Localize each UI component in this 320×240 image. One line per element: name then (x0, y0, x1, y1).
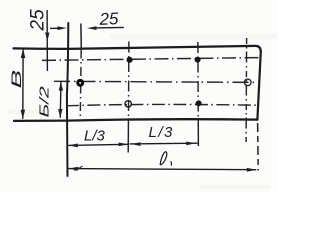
hole: open circle right-middle (247.7,82.3) (244, 79, 251, 86)
paper background (0, 0, 278, 192)
column centerline A (x=81) solid extension above plate (80, 24, 82, 50)
plate right edge (257, 52, 260, 120)
plate bottom edge with left extension (14, 119, 257, 121)
hole: filled dot top-right (197.6,59.6) (195, 57, 201, 63)
hole: open circle bottom-left (128.2,103.9) (125, 101, 131, 107)
dim B: vertical dimension line with two arrowheads (22, 49, 24, 119)
dim L: cursive label (160, 152, 167, 165)
middle centerline (y=82) (54, 81, 259, 82)
hole: thick ring left-middle (80.2,82.8) (78, 80, 83, 85)
plate top edge with left extension and rounded top-right corner (14, 46, 261, 52)
right edge dashed extension below plate (L dim) (257, 123, 260, 171)
bottom hole row centerline (y=105) (66, 104, 257, 105)
dim B/2: vertical dimension line with two arrowheads (59, 82, 62, 118)
column centerline A inside plate (dash-dot) (80, 50, 81, 121)
top hole row centerline (y=60) (42, 58, 259, 61)
dim 25 horizontal: right arrow pointing left, tip near col A ext (95, 26, 124, 29)
svg-text:Б/2: Б/2 (37, 86, 52, 118)
svg-text:В: В (8, 70, 24, 89)
svg-text:25: 25 (98, 9, 119, 29)
dim 25 vertical: dimension line with down arrowhead (46, 10, 48, 71)
col B solid extension below plate (127, 121, 129, 153)
dim L/3 second: dimension line between col B and col C (130, 142, 198, 145)
dim 25 horizontal: left arrow pointing right, tip at left edge ext (50, 27, 60, 29)
hole: filled dot bottom-right (198.6,103.4) (196, 100, 202, 106)
dim L: long dimension line across the bottom (69, 169, 257, 170)
column centerline C (x=198) (197, 42, 199, 121)
plate left edge, extended above (25 dim) and below (L dim) (67, 23, 68, 176)
faint scan noise (110, 34, 278, 39)
svg-text:L/3: L/3 (84, 128, 106, 145)
dim L: sketchy double-stroke near left arrowhead (75, 166, 83, 170)
svg-text:L/3: L/3 (149, 124, 174, 141)
hole: filled dot top-left (129.6,59.8) (127, 57, 133, 63)
svg-text:25: 25 (28, 9, 49, 32)
dim L: comma after cursive ell (170, 162, 173, 165)
column centerline D (x=246.5) (245, 38, 248, 142)
col C solid extension below plate (197, 121, 199, 146)
dim L/3 first: dimension line between left edge and col B (68, 144, 128, 145)
column centerline B (x=129) (127, 42, 129, 122)
